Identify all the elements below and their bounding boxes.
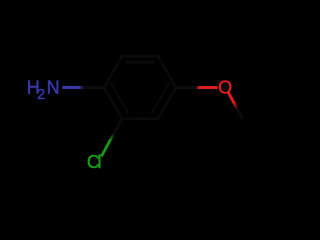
bond C4-O (ring to ether oxygen) xyxy=(176,86,218,89)
double bond inner line C4=C5 xyxy=(152,84,169,114)
benzene ring C1-C6 xyxy=(104,56,176,118)
bond C5-Cl (ring to chlorine) xyxy=(101,119,122,157)
svg-text:l: l xyxy=(98,152,102,172)
bond O-CH3 (methoxy) xyxy=(228,91,243,118)
svg-text:N: N xyxy=(47,77,60,97)
svg-text:O: O xyxy=(218,77,232,97)
svg-text:2: 2 xyxy=(37,87,45,103)
double bond inner line C2=C3 xyxy=(126,61,155,63)
double bond inner line C6=C1 xyxy=(111,84,128,114)
bond N-C1 (amine to ring) xyxy=(62,86,104,89)
